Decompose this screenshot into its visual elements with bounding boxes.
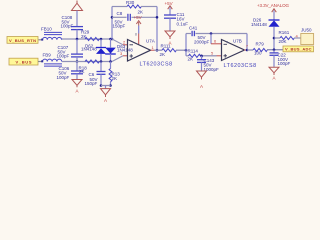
resistor R161 [274, 30, 301, 44]
capacitor C6 [85, 62, 106, 87]
node junction R111/R114/C41 [185, 49, 188, 52]
node junction C143 top [200, 55, 203, 58]
net label V_BUS_ADC [283, 46, 314, 52]
node junction C108/C107 on upper row [76, 38, 79, 41]
pin 7 stub U7B output [244, 44, 249, 50]
svg-text:R114: R114 [188, 48, 199, 53]
ground AGND C143 [197, 71, 207, 89]
ferrite bead FB9 [41, 53, 62, 67]
resistor R29 [81, 30, 99, 41]
svg-text:LT6203CS8: LT6203CS8 [224, 63, 257, 69]
svg-text:2K: 2K [79, 69, 85, 74]
svg-text:8: 8 [135, 33, 137, 37]
power +5V U7A [134, 15, 142, 44]
svg-text:R161: R161 [279, 30, 290, 35]
capacitor C106 [57, 62, 84, 81]
ground AGND left [101, 86, 111, 104]
svg-text:150pF: 150pF [85, 81, 98, 86]
node junction C8 row right [156, 16, 159, 19]
net label V_BUS_RTN [7, 37, 38, 44]
resistor R30 [112, 0, 157, 14]
svg-text:2K: 2K [160, 52, 166, 57]
node junction D63 top [109, 38, 112, 41]
wire U7B output to R79 [247, 49, 253, 51]
capacitor C11 [164, 12, 188, 31]
wire C41 to U7B output vertical [246, 34, 248, 51]
wire FB9 to U7A plus input [62, 61, 112, 63]
svg-text:+5V: +5V [134, 15, 142, 20]
node junction feedback tap [111, 38, 114, 41]
capacitor C143 [197, 56, 219, 72]
wire U7A output to R111 [155, 49, 163, 51]
svg-text:100pF: 100pF [57, 75, 70, 80]
svg-text:V_BUS: V_BUS [16, 60, 32, 65]
node junction C107 on lower row [76, 60, 79, 63]
feedback left vertical U7A [111, 7, 113, 40]
wire diagonal to U7A plus input [112, 56, 123, 62]
pin 3 stub U7A [120, 51, 128, 56]
net label V_BUS [9, 58, 38, 65]
node junction D62 top [100, 38, 103, 41]
resistor R18 [79, 60, 100, 74]
svg-text:C8: C8 [117, 11, 123, 16]
svg-text:150pF: 150pF [113, 24, 126, 29]
svg-text:4: 4 [227, 41, 229, 45]
svg-text:A: A [200, 84, 203, 89]
node junction U7B output [246, 49, 249, 52]
svg-text:R30: R30 [126, 0, 135, 5]
power +5V bypass column [165, 1, 173, 15]
wire V_BUS to FB9 [38, 61, 43, 63]
node junction C6 top [100, 60, 103, 63]
svg-text:V_BUS_RTN: V_BUS_RTN [9, 38, 36, 43]
svg-text:1N4148: 1N4148 [81, 47, 97, 52]
capacitor C41 [186, 25, 247, 44]
capacitor C22 [270, 50, 291, 67]
node junction U7B minus branch [210, 32, 213, 35]
diode D63 [105, 39, 133, 62]
svg-text:FB9: FB9 [43, 53, 52, 58]
diode D62 [81, 39, 106, 62]
svg-text:R111: R111 [161, 43, 172, 48]
feedback right vertical U7A [156, 7, 158, 51]
svg-text:A: A [104, 98, 107, 103]
op-amp U7A [128, 38, 155, 61]
wire ground join [101, 85, 111, 87]
wire FB10 to node [62, 38, 112, 40]
svg-text:U7B: U7B [233, 39, 242, 44]
svg-text:2000pF: 2000pF [194, 39, 210, 44]
capacitor C108 [61, 15, 84, 39]
node junction C8 row left [111, 16, 114, 19]
wire diagonal to U7A minus input [112, 39, 123, 45]
svg-text:U7A: U7A [146, 38, 155, 43]
node junction C6 bottom [100, 84, 103, 87]
svg-text:A: A [272, 75, 275, 80]
wire U7B minus branch [210, 34, 212, 44]
pin 1 stub U7A output [151, 45, 155, 50]
svg-text:100pF: 100pF [278, 61, 291, 66]
pin 5 stub U7B [211, 51, 222, 56]
wire C41 branch vertical [185, 34, 187, 56]
svg-text:V_BUS_ADC: V_BUS_ADC [285, 47, 312, 52]
ground AGND bypass [165, 31, 175, 45]
node junction R161 tap [273, 37, 276, 40]
svg-text:LT6203CS8: LT6203CS8 [140, 61, 173, 67]
op-amp U7B [222, 39, 245, 61]
resistor R111 [160, 43, 187, 57]
diode D26 [251, 17, 280, 49]
svg-text:R79: R79 [256, 41, 265, 46]
svg-text:+5V: +5V [165, 1, 173, 6]
capacitor C8 [112, 11, 157, 28]
svg-text:JU50: JU50 [301, 27, 312, 32]
ground AGND C106 [72, 80, 82, 94]
resistor R79 [253, 41, 284, 55]
node junction R13 bottom [109, 84, 112, 87]
capacitor C107 [57, 39, 84, 62]
svg-text:+3.3V_ANALOG: +3.3V_ANALOG [257, 3, 289, 8]
svg-text:A: A [75, 89, 78, 94]
svg-text:0.1uF: 0.1uF [177, 21, 189, 26]
ground AGND C22 [269, 67, 279, 80]
pin 6 stub U7B [211, 39, 222, 44]
ferrite bead FB10 [41, 27, 62, 41]
svg-text:FB10: FB10 [41, 27, 52, 32]
wire V_BUS_RTN to FB10 [39, 39, 44, 41]
node junction C22 top [273, 48, 276, 51]
svg-text:2K: 2K [138, 9, 144, 14]
svg-text:20K: 20K [279, 39, 287, 44]
svg-text:C41: C41 [189, 25, 198, 30]
power symbol top of C108 [72, 1, 83, 27]
jumper JU50 [296, 27, 314, 44]
power +3.3V_ANALOG [257, 3, 289, 20]
resistor R13 [109, 62, 120, 86]
svg-text:1N4148: 1N4148 [251, 22, 267, 27]
resistor R114 [186, 48, 217, 61]
node junction U7A output [156, 49, 159, 52]
node junction R13 top [109, 60, 112, 63]
svg-text:100pF: 100pF [57, 54, 70, 59]
pin 2 stub U7A [123, 40, 128, 45]
